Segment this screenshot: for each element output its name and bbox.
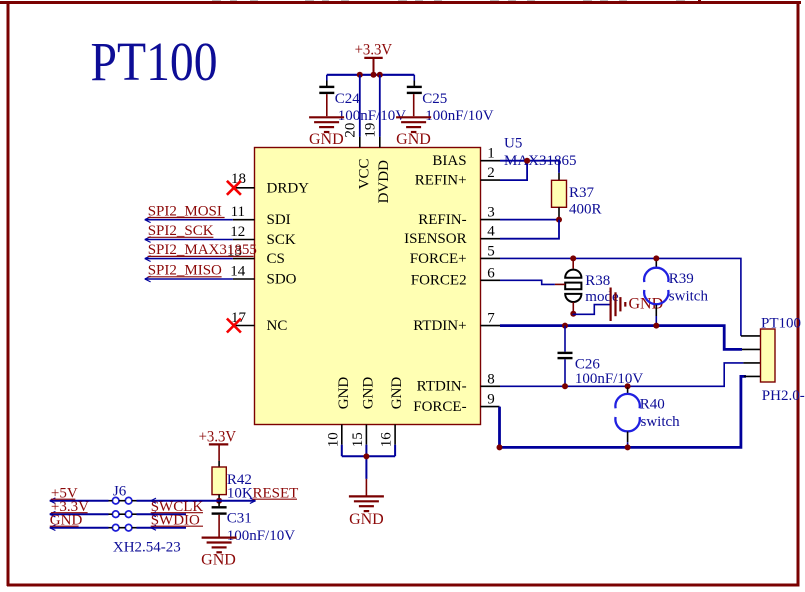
wire +5V <box>50 498 109 504</box>
svg-text:CS: CS <box>267 251 285 267</box>
svg-text:C31: C31 <box>227 510 252 526</box>
connector J6 pads <box>112 497 132 531</box>
svg-text:10: 10 <box>325 432 341 447</box>
svg-text:GND: GND <box>201 552 236 569</box>
svg-text:15: 15 <box>350 432 366 447</box>
junction rail-VCC <box>357 72 363 78</box>
svg-text:10K: 10K <box>227 486 253 502</box>
junction RTDIN-/R40 <box>625 383 631 389</box>
svg-text:DRDY: DRDY <box>267 180 310 196</box>
power port +3.3V at R42 <box>199 428 237 461</box>
svg-text:GND: GND <box>396 131 431 148</box>
wire R38 to GND <box>573 305 610 315</box>
junction FORCE+/R39 <box>653 255 659 261</box>
svg-text:100nF/10V: 100nF/10V <box>425 108 494 124</box>
pin 7 RTDIN+ <box>481 311 501 327</box>
svg-text:SDO: SDO <box>267 271 297 287</box>
IC U5 body <box>255 148 481 425</box>
svg-text:RTDIN+: RTDIN+ <box>413 318 466 334</box>
connector P1 PT100 body <box>761 329 776 382</box>
junction R37 bottom <box>556 217 562 223</box>
capacitor C31 <box>212 501 227 537</box>
wire VCC drop <box>359 75 361 137</box>
ground GND rotated near R38 <box>611 288 664 322</box>
jumper R38 <box>555 258 582 312</box>
capacitor C24 <box>319 75 334 116</box>
junction FORCE-/R40 <box>625 444 631 450</box>
svg-text:16: 16 <box>379 432 395 448</box>
wire GND pins join <box>342 445 395 479</box>
svg-text:R38: R38 <box>585 273 610 289</box>
junction RTDIN+/C26 <box>562 323 568 329</box>
pin 6 FORCE2 <box>481 265 501 281</box>
no-connect X pin 17 <box>227 319 241 333</box>
junction GND pins <box>363 453 369 459</box>
svg-text:3: 3 <box>487 205 495 221</box>
ground GND under C25 <box>396 117 431 148</box>
wire SDI <box>145 217 233 223</box>
net label SWCLK <box>151 499 204 515</box>
junction FORCE- corner <box>497 444 503 450</box>
svg-text:8: 8 <box>487 371 495 387</box>
junction R38 bottom <box>570 311 576 317</box>
pin 13 CS <box>227 243 255 259</box>
net label +3.3V <box>51 499 89 515</box>
svg-text:RTDIN-: RTDIN- <box>417 379 467 395</box>
wire RTDIN- net <box>500 363 743 386</box>
junction rail-power <box>371 72 377 78</box>
svg-text:GND: GND <box>349 511 384 528</box>
capacitor C25 <box>407 75 422 116</box>
pin 18 DRDY <box>231 171 255 188</box>
junction RTDIN-/C26 <box>562 383 568 389</box>
svg-text:SDI: SDI <box>267 212 291 228</box>
net label SWDIO <box>151 512 203 528</box>
net label GND J6 <box>50 512 83 528</box>
resistor R37 <box>552 173 567 220</box>
svg-text:20: 20 <box>342 123 358 138</box>
ground GND under chip <box>349 479 384 528</box>
connector P1 PT100 pins <box>741 336 761 377</box>
pin 15 GND <box>350 425 367 448</box>
svg-text:GND: GND <box>336 377 352 410</box>
pin 12 SCK <box>230 224 254 240</box>
pin 16 GND <box>379 425 396 448</box>
svg-text:100nF/10V: 100nF/10V <box>227 528 296 544</box>
svg-text:9: 9 <box>487 392 495 408</box>
connector J6 pin stubs <box>109 501 137 528</box>
svg-text:ISENSOR: ISENSOR <box>404 231 467 247</box>
net label SPI2_MAX31855 <box>148 242 257 258</box>
pin 4 ISENSOR <box>481 224 501 240</box>
svg-text:C25: C25 <box>422 91 447 107</box>
wire ISENSOR up to REFIN- <box>500 220 559 239</box>
power port +3.3V top <box>355 41 393 75</box>
svg-text:U5: U5 <box>504 136 522 152</box>
net label +5V <box>51 485 78 501</box>
ground GND under C31 <box>201 538 236 569</box>
pin 10 GND <box>325 425 342 448</box>
svg-text:REFIN-: REFIN- <box>418 212 466 228</box>
junction RTDIN+/R39 <box>653 323 659 329</box>
net label RESET <box>253 485 299 501</box>
svg-text:GND: GND <box>360 377 376 410</box>
no-connect X pin 18 <box>227 181 241 195</box>
wire GND J6 <box>50 525 109 531</box>
junction BIAS/REFIN+ <box>524 158 530 164</box>
svg-text:7: 7 <box>487 311 495 327</box>
svg-text:FORCE-: FORCE- <box>413 399 466 415</box>
svg-text:C26: C26 <box>575 356 601 372</box>
resistor R42 <box>212 461 226 501</box>
pin 11 SDI <box>231 204 255 220</box>
svg-text:NC: NC <box>267 318 288 334</box>
svg-text:+3.3V: +3.3V <box>199 428 237 445</box>
svg-text:+3.3V: +3.3V <box>355 41 393 58</box>
wire REFIN- <box>500 219 559 221</box>
svg-text:J6: J6 <box>113 484 127 500</box>
svg-text:R37: R37 <box>569 185 595 201</box>
svg-text:1: 1 <box>487 146 495 162</box>
svg-text:switch: switch <box>669 288 709 304</box>
net label SPI2_MISO <box>148 263 222 279</box>
wire +3.3V rail <box>327 74 415 76</box>
svg-text:PH2.0-4P: PH2.0-4P <box>762 388 805 404</box>
svg-text:6: 6 <box>487 265 495 281</box>
pin 17 NC <box>231 310 255 326</box>
svg-text:19: 19 <box>363 123 379 138</box>
svg-text:4: 4 <box>487 224 495 240</box>
pin 9 FORCE- <box>481 392 500 408</box>
junction rail-DVDD <box>377 72 383 78</box>
wire FORCE+ net <box>500 258 741 336</box>
svg-text:100nF/10V: 100nF/10V <box>338 108 407 124</box>
wire REFIN+ up to BIAS <box>500 161 527 180</box>
svg-text:FORCE+: FORCE+ <box>410 251 467 267</box>
pin 20 VCC <box>342 123 359 148</box>
svg-text:R40: R40 <box>640 397 665 413</box>
switch R39 <box>644 260 668 326</box>
capacitor C26 <box>558 326 573 387</box>
wire SCK <box>145 237 233 243</box>
svg-text:XH2.54-23: XH2.54-23 <box>113 539 181 555</box>
pin 3 REFIN- <box>481 205 501 221</box>
svg-text:SCK: SCK <box>267 232 296 248</box>
svg-text:GND: GND <box>389 377 405 410</box>
wire FORCE- net <box>500 376 747 447</box>
pin 19 DVDD <box>363 123 380 148</box>
svg-text:C24: C24 <box>335 91 361 107</box>
wire FORCE2 to R38 <box>500 280 555 284</box>
pin 5 FORCE+ <box>481 243 501 259</box>
wire BIAS to R37 top <box>500 161 559 173</box>
pin 1 BIAS <box>481 146 501 162</box>
svg-text:14: 14 <box>230 264 246 280</box>
wire +3.3V J6 <box>50 511 109 517</box>
svg-text:PT100: PT100 <box>91 31 218 92</box>
pin 8 RTDIN- <box>481 371 501 387</box>
pin 2 REFIN+ <box>481 165 501 181</box>
wire CS <box>145 256 233 262</box>
svg-text:GND: GND <box>309 131 344 148</box>
svg-text:BIAS: BIAS <box>432 153 466 169</box>
wire RESET <box>137 498 256 504</box>
wire RTDIN+ net <box>500 326 742 350</box>
svg-text:5: 5 <box>487 243 495 259</box>
svg-text:mode: mode <box>585 289 619 305</box>
svg-text:100nF/10V: 100nF/10V <box>575 371 644 387</box>
wire DVDD drop <box>379 75 381 137</box>
svg-text:VCC: VCC <box>356 158 372 189</box>
wire SWDIO <box>137 525 187 530</box>
switch R40 <box>615 387 639 447</box>
svg-text:11: 11 <box>231 204 245 220</box>
wire SDO <box>145 276 233 282</box>
junction R42/C31/RESET <box>216 498 222 504</box>
svg-text:REFIN+: REFIN+ <box>415 172 467 188</box>
svg-text:R39: R39 <box>669 271 694 287</box>
svg-text:400R: 400R <box>569 202 602 218</box>
net label SPI2_MOSI <box>148 203 225 219</box>
svg-text:PT100: PT100 <box>761 316 801 332</box>
pin 14 SDO <box>230 264 254 280</box>
svg-text:2: 2 <box>487 165 495 181</box>
svg-text:12: 12 <box>230 224 245 240</box>
junction FORCE+/R38 <box>570 255 576 261</box>
svg-text:FORCE2: FORCE2 <box>411 272 467 288</box>
svg-text:switch: switch <box>641 414 681 430</box>
svg-text:DVDD: DVDD <box>376 160 392 203</box>
ground GND under C24 <box>309 117 344 148</box>
wire SWCLK <box>137 512 187 517</box>
net label SPI2_SCK <box>148 223 214 239</box>
